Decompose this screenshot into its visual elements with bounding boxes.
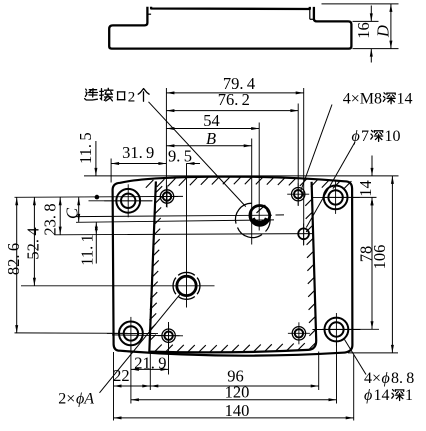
dimension 14	[356, 156, 375, 211]
tapped hole M8 BL	[158, 325, 180, 347]
hatching ticks along cavity bottom edge	[155, 343, 316, 352]
svg-text:22: 22	[113, 366, 130, 385]
label phi7 deep 10	[352, 128, 401, 145]
extension vertical plate right edge bottom	[353, 355, 355, 421]
dimension 140	[114, 401, 354, 420]
centreline middle hole horizontal	[21, 285, 215, 287]
svg-text:8. 8: 8. 8	[391, 370, 414, 387]
svg-text:ϕ: ϕ	[382, 370, 390, 387]
cavity boundary (sectioned wall)	[149, 181, 316, 352]
side view left lip notch bottom	[147, 13, 151, 15]
centreline middle hole vertical	[186, 163, 188, 307]
svg-text:ϕ: ϕ	[352, 128, 360, 145]
dimension 96	[150, 367, 318, 388]
svg-text:1: 1	[405, 387, 413, 404]
hole phi7 deep10	[298, 224, 309, 246]
extension line BR hole centreline right	[322, 328, 379, 330]
side view plate outline	[109, 7, 351, 49]
centreline hole TL horizontal	[89, 200, 153, 202]
extension vertical port thin circle	[251, 139, 253, 245]
extension vertical M8-TR (76.2)	[297, 104, 299, 207]
dimension 106	[370, 176, 394, 353]
extension vertical BL hole centre bottom	[130, 346, 132, 404]
dimension 11.1	[77, 222, 98, 266]
centreline hole BL horizontal (82.6 extension)	[15, 332, 159, 335]
hatching ticks along cavity right edge	[305, 199, 316, 336]
extension line plate bottom right (106)	[348, 352, 398, 354]
svg-text:23. 8: 23. 8	[40, 203, 59, 235]
leader line for connection ports	[149, 102, 246, 207]
hatching ticks along cavity left edge	[149, 186, 162, 341]
centreline to port thin circle (line B)	[76, 220, 274, 222]
dimension 22	[113, 366, 150, 388]
extension line top (for dim D)	[322, 3, 399, 5]
counterbored hole TL (4xphi8.8/phi14)	[104, 184, 152, 217]
datum line M8-TL centreline (left dims)	[15, 195, 184, 198]
long extension line top edge datum (y=176)	[84, 175, 399, 177]
svg-text:120: 120	[225, 383, 250, 402]
leader line for 2xphiA	[100, 295, 180, 393]
extension line TR hole centreline right	[322, 196, 377, 198]
dimension 82.6	[4, 197, 23, 333]
extension vertical plate left edge top (31.9)	[110, 159, 112, 183]
extension line bottom (for dims 16 and D)	[353, 48, 399, 50]
svg-text:ϕA: ϕA	[76, 391, 94, 408]
connection port hole (thick circle)	[250, 205, 270, 225]
dimension 120	[131, 383, 337, 402]
leader line for phi7 hole	[306, 142, 355, 228]
svg-text:D: D	[374, 25, 393, 38]
extension vertical phi7 (79.4)	[303, 88, 305, 245]
svg-text:2×: 2×	[58, 391, 75, 408]
svg-text:16: 16	[354, 22, 373, 39]
svg-text:2: 2	[128, 89, 136, 105]
dimension 23.8	[40, 197, 61, 235]
tapped hole M8 TL	[156, 186, 178, 208]
extension line flange top (for dim 16)	[353, 20, 379, 22]
centreline to port thick circle (line A)	[76, 215, 284, 217]
svg-text:7: 7	[361, 128, 369, 145]
leader line for M8 holes	[300, 105, 332, 193]
svg-text:9. 5: 9. 5	[168, 147, 192, 166]
label 2xphiA	[58, 391, 94, 408]
hatching ticks along top edge	[146, 176, 352, 189]
svg-text:140: 140	[225, 401, 250, 420]
svg-text:4×M8: 4×M8	[343, 90, 382, 107]
dimension 11.5	[76, 132, 97, 175]
extension vertical M8-TL / top dims datum	[165, 88, 167, 207]
label 4xM8 deep 14	[343, 90, 413, 107]
dimension 79.4	[166, 74, 303, 94]
extension vertical M8-BL bottom	[168, 322, 170, 375]
svg-text:11. 1: 11. 1	[77, 234, 96, 266]
svg-text:31. 9: 31. 9	[122, 143, 154, 162]
dimension C	[63, 197, 82, 222]
extension vertical plate left edge bottom	[113, 352, 115, 421]
dimension D (side view total height)	[374, 4, 393, 49]
svg-text:82. 6: 82. 6	[4, 243, 23, 275]
svg-text:14: 14	[397, 90, 413, 107]
svg-text:52. 4: 52. 4	[24, 227, 43, 259]
dimension 9.5	[168, 147, 200, 166]
junction dot on datum	[95, 195, 100, 200]
svg-text:106: 106	[370, 245, 389, 270]
centreline M8-BL horizontal	[112, 334, 183, 337]
label lian-jie-kou-2-ge (connection ports x2)	[85, 88, 150, 105]
dimension 78	[357, 197, 376, 329]
counterbored hole TR (4xphi8.8/phi14)	[312, 181, 360, 214]
label 4xphi8.8 / phi14 deep 1	[364, 370, 414, 404]
plate outline (main view)	[113, 177, 353, 356]
extension vertical cavity right bottom	[318, 352, 320, 391]
svg-text:4×: 4×	[364, 370, 381, 387]
middle threaded port hole (2xphiA)	[173, 272, 200, 299]
dimension 31.9	[111, 143, 166, 165]
connection port mating circle (thin, broken)	[235, 203, 270, 237]
counterbored hole BL (4xphi8.8/phi14)	[107, 317, 155, 350]
svg-text:76. 2: 76. 2	[218, 90, 250, 109]
extension vertical port thick circle	[258, 123, 260, 231]
dimension 21.9	[131, 353, 169, 372]
svg-text:C: C	[63, 207, 82, 219]
dimension B	[166, 129, 251, 148]
svg-text:14: 14	[374, 387, 390, 404]
dimension 76.2	[166, 90, 298, 112]
svg-text:11. 5: 11. 5	[76, 132, 95, 164]
svg-text:21. 9: 21. 9	[134, 353, 166, 372]
svg-text:B: B	[206, 129, 216, 148]
svg-text:10: 10	[385, 128, 401, 145]
svg-text:14: 14	[356, 180, 375, 197]
centreline phi7 horizontal (23.8 extension)	[54, 234, 314, 235]
svg-text:ϕ: ϕ	[364, 387, 372, 404]
extension vertical BR hole centre bottom	[336, 342, 338, 404]
tapped hole M8 TR	[287, 183, 309, 205]
counterbored hole BR (4xphi8.8/phi14)	[312, 313, 360, 346]
dimension 16 (side view flange thickness)	[354, 6, 373, 63]
leader line for 4xphi8.8	[345, 340, 367, 375]
side view right lip notch	[310, 9, 314, 19]
dimension 54	[166, 111, 259, 130]
extension vertical cavity left bottom	[149, 353, 151, 390]
tapped hole M8 BR	[288, 322, 310, 344]
svg-text:54: 54	[203, 111, 220, 130]
dimension 52.4	[24, 197, 43, 286]
